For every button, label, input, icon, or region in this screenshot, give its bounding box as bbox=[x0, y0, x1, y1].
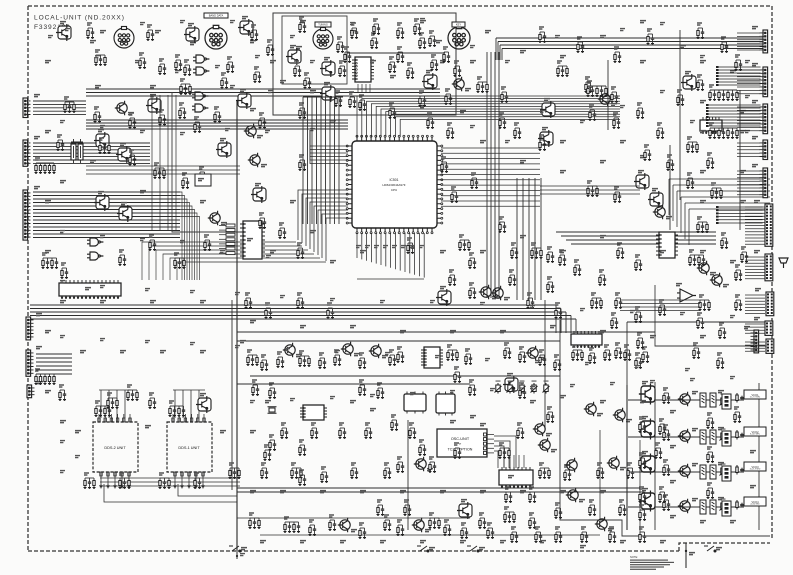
RC group at 408,243 bbox=[407, 238, 415, 254]
component value label 3 bbox=[250, 109, 256, 111]
long vertical wire x237 bbox=[236, 100, 238, 551]
CN9 label bbox=[754, 318, 760, 320]
VCO shielded transistor QV4 bbox=[639, 491, 655, 512]
transistor Q4 label bbox=[465, 89, 471, 91]
J3 bus to DIP 4 bbox=[180, 203, 190, 281]
shielded transistor Q56 label bbox=[120, 144, 126, 146]
component value label 14 bbox=[90, 161, 96, 163]
QFP bottom pin label 1 bbox=[356, 246, 361, 248]
trimmer VT4 VCO section bbox=[720, 499, 727, 512]
RC group at 558,66 bbox=[557, 61, 569, 77]
RC group at 640,532 bbox=[639, 527, 647, 543]
component value label 82 bbox=[620, 541, 626, 543]
wire net label r2 34 bbox=[100, 126, 105, 128]
RC group at 565,470 bbox=[564, 465, 572, 481]
bus wire mid horizontal 5 bbox=[30, 318, 576, 320]
VCO3 label box bbox=[744, 462, 766, 471]
component value label 66 bbox=[360, 491, 366, 493]
staircase bus to IC502 4 bbox=[163, 254, 314, 280]
VCO row label b 3 bbox=[718, 463, 724, 465]
RC group at 410,428 bbox=[409, 423, 417, 439]
border frame bottom dashed bbox=[28, 550, 679, 552]
DDS top rail x167 bbox=[173, 389, 205, 391]
RC group r2 615,192 bbox=[614, 187, 622, 203]
TV jack symbol bbox=[779, 258, 788, 268]
NAND gate IC513b bbox=[193, 67, 209, 75]
CN2 stub wire y207 8 bbox=[745, 228, 765, 230]
QFP bottom pin label 8 bbox=[419, 246, 424, 248]
transistor Q5 bbox=[208, 211, 220, 225]
CPU right bus 4 bbox=[441, 163, 540, 165]
CN stub wire y33 6 bbox=[737, 49, 760, 51]
switch S4 label bbox=[716, 548, 722, 550]
RC group r3 408,68 bbox=[407, 63, 415, 79]
CPU bottom pin fan 15 bbox=[423, 233, 425, 278]
svg-text:KEY: KEY bbox=[456, 22, 461, 26]
NAND gate IC514a bbox=[87, 238, 103, 246]
RC group at 548,252 bbox=[547, 247, 555, 263]
RC group at 500,222 bbox=[499, 217, 507, 233]
RC group at 442,162 bbox=[441, 157, 449, 173]
bus wire top-right 3 bbox=[500, 44, 763, 46]
RC group at 688,178 bbox=[687, 173, 695, 189]
CPU top bus 9 bbox=[395, 117, 620, 137]
RC group at 85,478 bbox=[84, 473, 96, 489]
transistor Q15 label bbox=[551, 450, 557, 452]
RC group at 598,468 bbox=[597, 463, 605, 479]
RC group at 430,462 bbox=[429, 457, 437, 473]
component value label 61 bbox=[600, 401, 606, 403]
CN stub wire y107 5 bbox=[737, 120, 760, 122]
staircase bus right CN6 4 bbox=[681, 196, 770, 198]
OSC-UNIT pins label bbox=[480, 424, 486, 426]
left conn J2 wire 7 bbox=[33, 162, 150, 164]
component value label 35 bbox=[250, 321, 256, 323]
RC group at 612,92 bbox=[611, 87, 619, 103]
DDS-2 bottom pin pad 2 bbox=[107, 472, 109, 476]
CPU top bus 2 bbox=[362, 99, 620, 137]
wire net label r2 33 bbox=[60, 121, 65, 123]
wire net label r2 24 bbox=[95, 56, 100, 58]
J5 label bbox=[36, 347, 42, 349]
RC group at 578,42 bbox=[577, 37, 585, 53]
DDS-2 bottom pin stub 4 bbox=[121, 472, 123, 484]
RC group at 278,357 bbox=[277, 352, 285, 368]
CN1 label bbox=[752, 27, 758, 29]
RC group at 636,358 bbox=[635, 353, 643, 369]
RC group at 616,348 bbox=[615, 343, 623, 359]
IC502 label bbox=[85, 288, 91, 290]
shielded transistor Q42 label bbox=[121, 203, 127, 205]
transistor Q21 bbox=[414, 457, 426, 471]
shielded transistor Q42 bbox=[117, 205, 132, 222]
CN stub wire y143 1 bbox=[737, 142, 760, 144]
QV4 label bbox=[642, 489, 648, 491]
bus wire upper-mid 2 bbox=[86, 92, 440, 94]
CPU right bus 6 bbox=[441, 174, 540, 176]
transistor Q4 bbox=[452, 77, 464, 91]
svg-text:0.1-7.9 MHz: 0.1-7.9 MHz bbox=[750, 397, 760, 399]
svg-text:15-21.9 MHz: 15-21.9 MHz bbox=[750, 469, 761, 471]
CN stub wire y107 7 bbox=[737, 126, 760, 128]
RC group at 530,492 bbox=[529, 487, 537, 503]
VCO row cap 2 bbox=[740, 433, 744, 438]
RC group at 548,412 bbox=[547, 407, 555, 423]
RC group at 200,172 bbox=[199, 167, 207, 183]
wire net label r2 78 bbox=[250, 401, 255, 403]
RC group at 660,492 bbox=[659, 487, 667, 503]
vertical bundle right-center 2 bbox=[522, 178, 524, 300]
CN stub wire y107 2 bbox=[737, 109, 760, 111]
component value label 67 bbox=[400, 491, 406, 493]
CN stub wire y70 1 bbox=[737, 69, 760, 71]
RC group at 43,258 bbox=[42, 253, 59, 269]
RC group at 480,518 bbox=[479, 513, 487, 529]
CN7 label bbox=[754, 251, 760, 253]
RC group at 640,458 bbox=[639, 453, 647, 469]
CPU left-bottom bus 1 bbox=[298, 190, 348, 240]
component value label 45 bbox=[80, 351, 86, 353]
RC group r2 415,24 bbox=[414, 19, 422, 35]
component value label 98 bbox=[155, 31, 161, 33]
bus wire mid drop 3 bbox=[565, 312, 567, 333]
J3 bus to DIP 5 bbox=[180, 206, 192, 280]
wire net label r2 8 bbox=[700, 56, 705, 58]
RC group at 181,84 bbox=[180, 79, 192, 95]
staircase bus right CN6 drop 3 bbox=[676, 191, 678, 227]
wire net label r2 42 bbox=[140, 239, 145, 241]
CN2 stub wire y295 5 bbox=[745, 306, 765, 308]
wire net label r2 2 bbox=[420, 19, 425, 21]
DDS-2 bottom pin stub 3 bbox=[114, 472, 116, 484]
component value label 17 bbox=[200, 201, 206, 203]
transistor Q10 label bbox=[539, 358, 545, 360]
svg-text:LOCAL-UNIT (ND.20XX): LOCAL-UNIT (ND.20XX) bbox=[34, 15, 125, 22]
component value label 7 bbox=[420, 21, 426, 23]
wire net label r2 11 bbox=[745, 131, 750, 133]
DDS-2 bottom gnd 4 bbox=[120, 484, 124, 488]
RC group at 335,355 bbox=[334, 350, 342, 366]
component value label 39 bbox=[450, 331, 456, 333]
IC505 top wire 2 bbox=[508, 455, 510, 468]
shielded transistor Q31 label bbox=[60, 22, 66, 24]
wire net label r2 60 bbox=[730, 316, 735, 318]
RC group r3 252,30 bbox=[251, 25, 259, 41]
CN stub wire y70 7 bbox=[737, 89, 760, 91]
shielded transistor Q46 label bbox=[440, 287, 446, 289]
wire net label r2 56 bbox=[530, 306, 535, 308]
switch S3 on bottom border bbox=[467, 546, 479, 552]
VCO row resistor 3 bbox=[736, 465, 738, 475]
bus wire right-mid 1 bbox=[556, 231, 716, 233]
RC group at 328,308 bbox=[327, 303, 335, 319]
DDS-2 UNIT dashed box bbox=[93, 422, 138, 472]
RC group at 640,510 bbox=[639, 505, 647, 521]
CPU bottom pin fan 7 bbox=[385, 233, 387, 266]
RC group at 60,390 bbox=[59, 385, 67, 401]
DDS-2 bottom pin pad 1 bbox=[100, 472, 102, 476]
component value label 16 bbox=[140, 191, 146, 193]
OSC-UNIT pin 1 bbox=[484, 433, 487, 436]
bus bundle left of CPU 2 bbox=[307, 97, 309, 224]
connector J4 left edge bbox=[26, 317, 34, 340]
RC group r2 710,128 bbox=[709, 123, 739, 139]
staircase bus right CN6 5 bbox=[685, 202, 770, 204]
resistor network RN1-2 box bbox=[226, 229, 235, 232]
bottom long wire y535 bbox=[260, 534, 600, 536]
VCO shield coil B1 bbox=[710, 393, 716, 407]
RC group r2 555,360 bbox=[554, 355, 562, 371]
RC group r2 350,97 bbox=[349, 92, 357, 108]
CN2 stub wire y257 1 bbox=[745, 256, 765, 258]
DDS-2 top pin stub 1 bbox=[98, 414, 100, 422]
RC group at 540,468 bbox=[539, 463, 551, 479]
RC group at 378,505 bbox=[377, 500, 385, 516]
RC group at 65,102 bbox=[64, 97, 76, 113]
RC group at 160,115 bbox=[159, 110, 167, 126]
IC504 driver DIP top-center bbox=[352, 57, 374, 82]
IC505 label bbox=[508, 476, 514, 478]
CN2 stub wire y342 4 bbox=[745, 350, 765, 352]
VCO row rc mid 4 bbox=[663, 495, 671, 511]
outline path around gates area bbox=[172, 92, 240, 232]
component value label 124 bbox=[280, 81, 286, 83]
sub-circuit outline box top-center2 bbox=[282, 16, 347, 84]
vertical wire x680 right bbox=[679, 30, 681, 200]
shielded transistor Q49 bbox=[634, 173, 649, 190]
CN10 label bbox=[744, 327, 750, 329]
left conn J3 wire 6 bbox=[33, 209, 180, 211]
RC group at 612,318 bbox=[611, 313, 619, 329]
RC group at 262,360 bbox=[261, 355, 269, 371]
CN2 stub wire y207 1 bbox=[745, 206, 765, 208]
IC505 top wire 5 bbox=[523, 455, 525, 468]
RC group at 448,128 bbox=[447, 123, 455, 139]
RC group at 255,72 bbox=[254, 67, 262, 83]
RC group at 62,268 bbox=[61, 263, 69, 279]
left conn J2 wire 2 bbox=[33, 145, 150, 147]
DDS-1 bottom gnd 4 bbox=[194, 484, 198, 488]
shielded transistor Q55 label bbox=[98, 130, 104, 132]
RC group at 195,478 bbox=[194, 473, 202, 489]
RC group at 605,350 bbox=[604, 345, 612, 361]
component value label 92 bbox=[370, 61, 376, 63]
component value label 42 bbox=[600, 331, 606, 333]
left conn J1 wire 5 bbox=[33, 114, 86, 116]
RC group at 420,38 bbox=[419, 33, 427, 49]
wire net label r2 37 bbox=[225, 129, 230, 131]
CPU right bus 2 bbox=[441, 152, 540, 154]
wire net label r2 62 bbox=[100, 339, 105, 341]
wire net label r2 48 bbox=[145, 289, 150, 291]
RC group at 176,60 bbox=[175, 55, 183, 71]
CN2 stub wire y342 3 bbox=[745, 347, 765, 349]
CN stub wire y33 1 bbox=[737, 32, 760, 34]
wire net label r2 73 bbox=[635, 366, 640, 368]
RC group at 472,178 bbox=[471, 173, 479, 189]
IC505 PLL DIP bottom-middle bbox=[499, 467, 533, 488]
DDS-1 top pin stub 1 bbox=[172, 414, 174, 422]
transistor Q12 label bbox=[626, 420, 632, 422]
RC group r3 430,36 bbox=[429, 31, 437, 47]
shielded transistor Q44 bbox=[196, 396, 211, 413]
RC group at 532,248 bbox=[531, 243, 543, 259]
wire net label r2 28 bbox=[255, 56, 260, 58]
transistor Q9 bbox=[369, 344, 381, 358]
RC group at 150,398 bbox=[149, 393, 157, 409]
RC group at 656,448 bbox=[655, 443, 663, 459]
shielded transistor Q43 label bbox=[188, 24, 194, 26]
CPU right bus 7 bbox=[441, 179, 540, 181]
RC group at 96,406 bbox=[95, 401, 112, 417]
IC510 buffer top-right bbox=[700, 117, 722, 134]
shielded transistor Q33 label bbox=[290, 46, 296, 48]
RC group at 708,452 bbox=[707, 447, 715, 463]
RC group at 360,385 bbox=[359, 380, 367, 396]
DDS feed vertical x101 bbox=[100, 390, 102, 418]
DDS-1 top pin pad 4 bbox=[190, 418, 192, 422]
wire row right 2 bbox=[540, 189, 640, 191]
shielded transistor Q50 label bbox=[652, 189, 658, 191]
RC group r2 265,450 bbox=[264, 445, 272, 461]
VCO row transistor 4 bbox=[678, 499, 690, 513]
CPU bottom pin fan 13 bbox=[414, 233, 416, 275]
wire below border x237 bbox=[236, 551, 238, 559]
RC group at 345,52 bbox=[344, 47, 352, 63]
shielded transistor Q56 bbox=[116, 146, 131, 163]
wire net label r2 90 bbox=[730, 377, 735, 379]
RC group at 330,520 bbox=[329, 515, 337, 531]
RC group at 130,118 bbox=[129, 113, 137, 129]
DDS-2 top pin stub 4 bbox=[117, 414, 119, 422]
RC group r2 736,60 bbox=[735, 55, 743, 71]
component value label 27 bbox=[600, 236, 606, 238]
RC group at 573,350 bbox=[572, 345, 584, 361]
left conn J5 wire 2 bbox=[36, 357, 72, 359]
component value label 70 bbox=[520, 491, 526, 493]
shielded transistor Q35 label bbox=[324, 83, 330, 85]
wire below border x686 bbox=[685, 543, 687, 568]
component value label 75 bbox=[340, 541, 346, 543]
transistor Q18 label bbox=[723, 285, 729, 287]
switch S3 label bbox=[479, 548, 485, 550]
RC group at 205,240 bbox=[204, 235, 212, 251]
component value label 19 bbox=[310, 231, 316, 233]
RC group at 528,298 bbox=[527, 293, 535, 309]
wire net label r2 84 bbox=[490, 389, 495, 391]
RC group at 320,358 bbox=[319, 353, 327, 369]
shielded transistor Q52 bbox=[503, 376, 518, 393]
RC group r2 390,108 bbox=[389, 103, 397, 119]
component value label 24 bbox=[480, 251, 486, 253]
bus bundle left of CPU 5 bbox=[320, 97, 322, 224]
trimmer VR4 bbox=[531, 381, 538, 394]
wire net label r2 1 bbox=[350, 23, 355, 25]
RC group at 292,468 bbox=[291, 463, 303, 479]
RC group at 618,248 bbox=[617, 243, 625, 259]
CN2 stub wire y257 4 bbox=[745, 265, 765, 267]
CN2 stub wire y207 4 bbox=[745, 215, 765, 217]
transistor Q23 label bbox=[504, 298, 510, 300]
bus wire mid drop 2 bbox=[560, 309, 562, 334]
component value label 77 bbox=[420, 541, 426, 543]
transistor Q24 label bbox=[579, 500, 585, 502]
IC504 bottom wire 1 bbox=[357, 84, 359, 92]
wire net label r2 76 bbox=[75, 456, 80, 458]
RC group at 128,390 bbox=[127, 385, 139, 401]
RC group r2 336,96 bbox=[335, 91, 343, 107]
svg-text:22-30 MHz: 22-30 MHz bbox=[750, 504, 759, 506]
CPU left-bottom bus 5 bbox=[314, 206, 348, 252]
RC group at 155,168 bbox=[154, 163, 166, 179]
vertical bundle right-center 3 bbox=[528, 178, 530, 300]
transistor Q26 left of VCO rows bbox=[565, 458, 577, 472]
IC504 bottom wire 2 bbox=[361, 84, 363, 92]
component value label 8 bbox=[485, 31, 491, 33]
CPU bottom fan rail bbox=[357, 278, 424, 280]
RC group at 530,518 bbox=[529, 513, 537, 529]
wire net label r2 46 bbox=[60, 281, 65, 283]
transistor Q6 label bbox=[492, 297, 498, 299]
VCO row cap 3 bbox=[740, 468, 744, 473]
RC group at 120,478 bbox=[119, 473, 131, 489]
component value label 21 bbox=[330, 261, 336, 263]
component value label 106 bbox=[700, 101, 706, 103]
component value label 15 bbox=[60, 181, 66, 183]
vertical bundle right-center 1 bbox=[516, 178, 518, 300]
CN2 stub wire y295 2 bbox=[745, 297, 765, 299]
left band horizontal 1 bbox=[86, 165, 240, 167]
component value label 122 bbox=[420, 106, 426, 108]
trimmer VT1 VCO section bbox=[720, 394, 727, 407]
CPU top bus 5 bbox=[376, 106, 620, 137]
wire net label r2 83 bbox=[450, 391, 455, 393]
RC group at 678,95 bbox=[677, 90, 685, 106]
component value label 91 bbox=[670, 516, 676, 518]
border frame left dashed bbox=[27, 6, 29, 551]
wire net label r2 6 bbox=[620, 29, 625, 31]
CPU left bus 3 bbox=[310, 130, 348, 153]
OSC-UNIT pin 4 bbox=[484, 447, 487, 450]
DDS out wire 1 bbox=[100, 477, 240, 479]
CN stub wire y171 5 bbox=[737, 184, 760, 186]
wire net label r2 86 bbox=[570, 385, 575, 387]
wire net label r2 15 bbox=[580, 121, 585, 123]
RC group at 742,252 bbox=[741, 247, 749, 263]
left conn J3 wire 14 bbox=[33, 237, 180, 239]
RC group at 445,525 bbox=[444, 520, 452, 536]
DDS-2 top pin stub 6 bbox=[129, 414, 131, 422]
OSC out route 1 bbox=[494, 436, 516, 468]
transistor Q22 bbox=[533, 422, 545, 436]
CPU bottom pin fan 5 bbox=[375, 233, 377, 264]
op-amp IC515 bbox=[677, 289, 696, 302]
RC group at 590,110 bbox=[589, 105, 597, 121]
component value label 118 bbox=[560, 171, 566, 173]
CN stub wire y171 1 bbox=[737, 170, 760, 172]
left conn J5 wire 3 bbox=[36, 361, 72, 363]
RC group at 590,505 bbox=[589, 500, 597, 516]
switch S4 on bottom border bbox=[704, 546, 716, 552]
component value label 60 bbox=[560, 396, 566, 398]
RC group r2 300,445 bbox=[299, 440, 307, 456]
component value label 11 bbox=[640, 61, 646, 63]
svg-text:IC501: IC501 bbox=[389, 178, 398, 182]
RC group at 582,532 bbox=[581, 527, 589, 543]
CN stub wire y70 5 bbox=[737, 83, 760, 85]
CPU bottom pin fan 4 bbox=[370, 233, 372, 262]
RC group r2 446,94 bbox=[445, 89, 453, 105]
